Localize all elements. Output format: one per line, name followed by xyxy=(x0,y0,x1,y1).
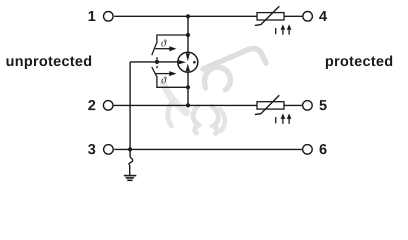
label unprotected xyxy=(7,55,92,69)
theta label lower xyxy=(161,77,166,84)
junction node link/middle wire xyxy=(155,60,159,64)
wire middle: left bus to gas discharge tube F1 left electrode xyxy=(130,61,177,63)
terminal 2 circle xyxy=(103,101,113,111)
wire row1 right: varistor V1 to terminal 4 xyxy=(284,15,302,17)
dot inside tube xyxy=(193,61,196,64)
junction node bus/row2 xyxy=(186,103,190,107)
thermal actuator arrow upper xyxy=(155,46,176,51)
varistor V2 xyxy=(255,95,284,114)
overload indicator V1 xyxy=(276,28,289,35)
terminal label 2 xyxy=(88,100,95,110)
electrode arrow left xyxy=(179,60,186,64)
junction node lower switch/bus xyxy=(186,85,190,89)
mechanical link dashed xyxy=(156,57,158,68)
label protected xyxy=(326,55,392,69)
ground symbol xyxy=(124,176,137,181)
wire vertical bus from row1 to gas discharge tube F1 top xyxy=(187,16,189,52)
varistor V1 xyxy=(255,6,284,25)
terminal label 1 xyxy=(89,11,96,21)
junction node row1/bus xyxy=(186,14,190,18)
terminal label 3 xyxy=(88,144,95,154)
wire row2 left: terminal 2 to varistor V2 xyxy=(114,104,257,106)
terminal 4 circle xyxy=(303,11,313,21)
terminal label 6 xyxy=(320,144,327,154)
terminal 3 circle xyxy=(104,145,114,155)
gas discharge tube F1 (3-electrode arrester) xyxy=(178,52,198,72)
terminal label 4 xyxy=(319,11,327,21)
wire ground lead s-jog xyxy=(129,157,133,175)
thermal disconnect switch lower xyxy=(152,67,188,87)
junction node upper switch/bus xyxy=(186,33,190,37)
watermark logo xyxy=(164,49,267,134)
wire vertical bus from gas discharge tube F1 bottom to row2 xyxy=(187,72,189,105)
wire row1 left: terminal 1 to varistor V1 xyxy=(114,15,257,17)
thermal actuator arrow lower xyxy=(155,71,176,76)
thermal disconnect switch upper xyxy=(152,35,188,55)
electrode arrow bottom xyxy=(186,64,190,72)
terminal 1 circle xyxy=(104,11,114,21)
wire left ground bus vertical xyxy=(129,62,131,157)
junction node ground bus/row3 xyxy=(128,147,132,151)
theta label upper xyxy=(161,40,166,47)
terminal 5 circle xyxy=(303,101,313,111)
overload indicator V2 xyxy=(276,117,289,124)
terminal 6 circle xyxy=(303,145,313,155)
electrode arrow top xyxy=(186,53,190,61)
wire row3: terminal 3 to terminal 6 xyxy=(114,148,302,150)
wire row2 right: varistor V2 to terminal 5 xyxy=(284,104,302,106)
terminal label 5 xyxy=(319,100,326,110)
